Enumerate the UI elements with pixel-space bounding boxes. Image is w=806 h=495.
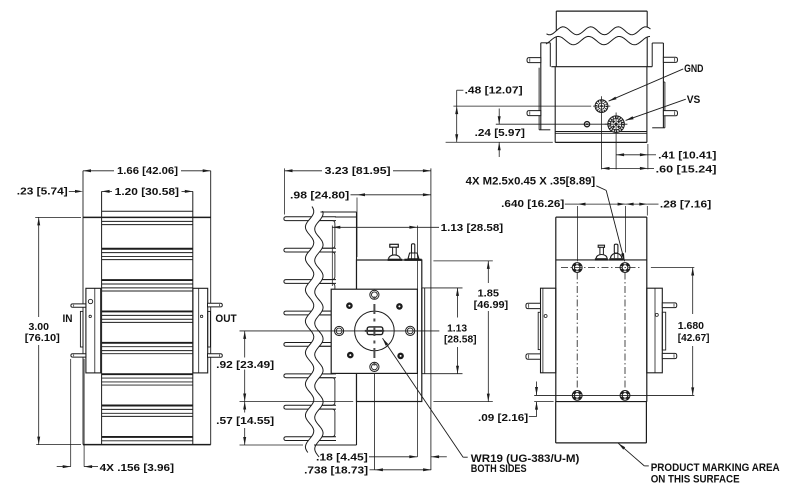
top view: VS terminal (knurled) xyxy=(608,116,625,133)
svg-text:GND: GND xyxy=(684,63,703,75)
dimension .98 [24.80] xyxy=(356,198,358,258)
rear view: right flange xyxy=(647,288,663,373)
top view: break lines (wavy) xyxy=(546,27,651,45)
svg-text:IN: IN xyxy=(63,313,73,325)
middle view: break lines (wavy) xyxy=(305,207,323,458)
middle view: VS terminal xyxy=(412,244,415,253)
svg-text:1.680: 1.680 xyxy=(678,321,705,332)
svg-text:.28 [7.16]: .28 [7.16] xyxy=(660,199,711,210)
dimension .41 [10.41] xyxy=(616,154,648,156)
svg-text:1.66 [42.06]: 1.66 [42.06] xyxy=(117,166,178,177)
rear view: 4X M2.5 screw bosses xyxy=(572,263,582,273)
svg-text:3.23 [81.95]: 3.23 [81.95] xyxy=(325,166,391,177)
svg-text:BOTH SIDES: BOTH SIDES xyxy=(471,463,527,475)
svg-text:.57 [14.55]: .57 [14.55] xyxy=(216,416,274,427)
dimension 1.66 [42.06] xyxy=(83,170,114,172)
svg-text:.640 [16.26]: .640 [16.26] xyxy=(501,199,564,210)
svg-text:1.13: 1.13 xyxy=(447,323,468,334)
middle view: far-side flange disk edge-on xyxy=(421,288,423,374)
svg-text:4X M2.5x0.45 X .35[8.89]: 4X M2.5x0.45 X .35[8.89] xyxy=(466,176,596,188)
dimension .18 [4.45] xyxy=(369,456,417,458)
middle view: main body xyxy=(357,260,422,402)
middle view: heatsink base plate edges xyxy=(321,211,357,213)
dimension .738 [18.73] xyxy=(370,469,375,471)
svg-text:ON THIS SURFACE: ON THIS SURFACE xyxy=(651,473,740,485)
svg-text:3.00: 3.00 xyxy=(29,322,50,333)
svg-text:.60 [15.24]: .60 [15.24] xyxy=(656,164,717,175)
dimension .640 [16.26] xyxy=(565,203,578,205)
rear view: right insulator strip xyxy=(662,312,665,350)
svg-text:.41 [10.41]: .41 [10.41] xyxy=(658,150,716,161)
svg-text:.98 [24.80]: .98 [24.80] xyxy=(290,190,349,201)
left view: OUT-side waveguide flange plate xyxy=(193,288,208,373)
svg-text:1.85: 1.85 xyxy=(478,288,500,299)
rear view: GND terminal xyxy=(598,245,604,247)
svg-text:1.13 [28.58]: 1.13 [28.58] xyxy=(441,223,504,234)
svg-text:.23 [5.74]: .23 [5.74] xyxy=(17,187,68,198)
top view: heatsink fin block (broken) xyxy=(556,10,647,12)
dimension .48 [12.07] xyxy=(456,90,458,142)
dimension .24 [5.97] xyxy=(498,109,500,125)
dimension .92 [23.49] xyxy=(244,331,246,358)
rear view: heatsink block and body xyxy=(556,216,647,218)
top view: left flange tab xyxy=(540,43,542,130)
rear view: dim extension lines xyxy=(577,206,579,261)
middle view: 4X M2.5 tapped holes xyxy=(370,290,379,299)
top view: GND terminal (knurled) xyxy=(595,100,608,113)
svg-text:.92 [23.49]: .92 [23.49] xyxy=(216,360,274,371)
svg-text:.18 [4.45]: .18 [4.45] xyxy=(316,452,368,463)
svg-text:4X .156 [3.96]: 4X .156 [3.96] xyxy=(100,463,174,474)
middle view: WR19 flange plate (square) xyxy=(331,289,417,373)
middle view: fin root gaps with fillets xyxy=(311,221,335,249)
middle view: waveguide aperture xyxy=(367,327,383,335)
svg-text:[46.99]: [46.99] xyxy=(474,300,509,311)
top view: reference lines xyxy=(453,105,591,107)
middle view: flange vertical centerline xyxy=(373,293,375,371)
dimension 3.23 [81.95] xyxy=(284,168,286,214)
rear view: left flange xyxy=(541,288,556,373)
dimension 1.13 [28.58] vertical (flange) xyxy=(457,288,459,318)
dimension .28 [7.16] xyxy=(626,203,648,205)
dimension .60 [15.24] xyxy=(602,167,648,169)
rear view: bottom step and marking block xyxy=(534,401,553,403)
rear view: right pins xyxy=(662,303,677,308)
left view: IN-side waveguide flange plate xyxy=(86,288,101,373)
dimension .57 [14.55] xyxy=(244,402,246,413)
middle view: waveguide horizontal centerline xyxy=(240,330,440,332)
dimension 3.00 [76.10] xyxy=(38,217,40,317)
svg-text:.738 [18.73]: .738 [18.73] xyxy=(304,465,368,476)
svg-text:OUT: OUT xyxy=(215,313,236,325)
middle view: GND terminal xyxy=(390,244,399,247)
svg-text:[76.10]: [76.10] xyxy=(25,333,60,344)
note PRODUCT MARKING AREA with leader xyxy=(644,465,649,467)
left view: flange dowel holes xyxy=(88,299,92,303)
top view: right flange tab xyxy=(662,43,664,128)
label VS with leader xyxy=(626,99,686,120)
middle view: flange boss circle xyxy=(355,311,395,351)
svg-text:1.20 [30.58]: 1.20 [30.58] xyxy=(115,187,179,198)
rear view: screw boss centerlines xyxy=(576,273,578,391)
dimension 1.20 [30.58] xyxy=(102,190,112,192)
top view: right pins xyxy=(663,57,677,62)
left view: IN-side terminal pins xyxy=(71,304,86,307)
dimension 1.680 [42.67] xyxy=(692,268,694,315)
svg-text:VS: VS xyxy=(687,94,701,106)
top view: small hole left of VS xyxy=(584,122,589,127)
dimension 4X .156 [3.96] xyxy=(70,359,72,467)
svg-text:.24 [5.97]: .24 [5.97] xyxy=(475,128,525,139)
dimension 1.85 [46.99] xyxy=(433,260,492,262)
dimension 1.13 [28.58] horizontal xyxy=(331,226,333,287)
middle view: body bottom extension xyxy=(240,401,354,403)
svg-text:.09 [2.16]: .09 [2.16] xyxy=(478,413,528,424)
top view: left pins xyxy=(527,58,541,63)
rear view: left insulator strip xyxy=(538,312,540,349)
svg-text:[28.58]: [28.58] xyxy=(444,334,477,345)
left view: OUT-side terminal pins xyxy=(208,303,223,307)
left view: OUT-side feedthrough insulator strip xyxy=(208,311,211,347)
left view: IN-side feedthrough insulator strip xyxy=(80,311,83,347)
rear view: left pins xyxy=(526,303,541,308)
top view: body outline xyxy=(551,66,652,68)
svg-text:[42.67]: [42.67] xyxy=(678,333,710,344)
middle view: heatsink fins (broken) xyxy=(284,217,336,221)
left view: fin field edges xyxy=(101,191,103,444)
dimension .09 [2.16] xyxy=(536,382,538,396)
svg-text:.48 [12.07]: .48 [12.07] xyxy=(465,85,523,96)
note WR19 (UG-383/U-M) BOTH SIDES with leader xyxy=(463,456,468,458)
middle view: flange alignment pin holes xyxy=(346,302,353,309)
left view: heatsink front outline xyxy=(82,171,84,445)
rear view: VS terminal xyxy=(614,244,618,253)
label GND with leader xyxy=(609,69,684,101)
left view: fin lines xyxy=(102,220,193,222)
